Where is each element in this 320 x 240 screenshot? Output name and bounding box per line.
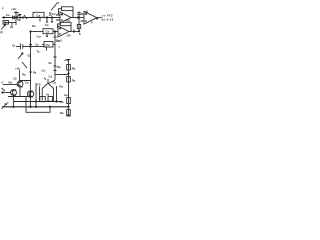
- svg-text:Aa: Aa: [64, 93, 68, 97]
- svg-text:C: C: [2, 81, 4, 85]
- svg-text:Ca: Ca: [42, 69, 46, 73]
- svg-text:Ca: Ca: [49, 75, 53, 79]
- svg-text:Ra: Ra: [22, 73, 26, 77]
- svg-text:Ca: Ca: [52, 12, 56, 16]
- svg-text:Ca: Ca: [35, 42, 39, 46]
- svg-text:-Va: -Va: [48, 61, 53, 65]
- svg-text:Ra: Ra: [72, 79, 76, 83]
- svg-text:Ra: Ra: [60, 111, 64, 115]
- svg-text:Ca: Ca: [57, 39, 61, 43]
- svg-text:+Va: +Va: [11, 7, 16, 11]
- svg-text:Cb: Cb: [37, 83, 41, 87]
- svg-text:Ra: Ra: [57, 65, 61, 69]
- svg-text:+Va: +Va: [64, 58, 69, 62]
- svg-text:Ra: Ra: [72, 67, 76, 71]
- svg-text:Ca: Ca: [25, 81, 29, 85]
- svg-text:OA: OA: [66, 18, 70, 22]
- svg-text:Ca: Ca: [45, 23, 49, 27]
- svg-text:Ca: Ca: [6, 13, 10, 17]
- svg-text:(1): (1): [0, 31, 3, 34]
- svg-text:Ca: Ca: [37, 13, 41, 17]
- svg-text:C: C: [4, 21, 6, 24]
- svg-text:H): H): [86, 10, 89, 13]
- svg-text:Ra: Ra: [32, 24, 36, 28]
- svg-text:+Va: +Va: [15, 67, 20, 71]
- svg-text:Cb: Cb: [28, 55, 32, 58]
- svg-text:Ra: Ra: [9, 81, 13, 85]
- svg-text:Ca: Ca: [46, 30, 50, 34]
- svg-text:Cb: Cb: [53, 81, 57, 85]
- svg-text:Ra: Ra: [60, 100, 64, 104]
- svg-text:Ra: Ra: [60, 85, 64, 89]
- svg-text:Cb: Cb: [13, 77, 17, 81]
- svg-text:ao 6-13: ao 6-13: [102, 17, 114, 21]
- svg-text:OA: OA: [67, 34, 71, 38]
- svg-text:Ca+: Ca+: [37, 35, 42, 39]
